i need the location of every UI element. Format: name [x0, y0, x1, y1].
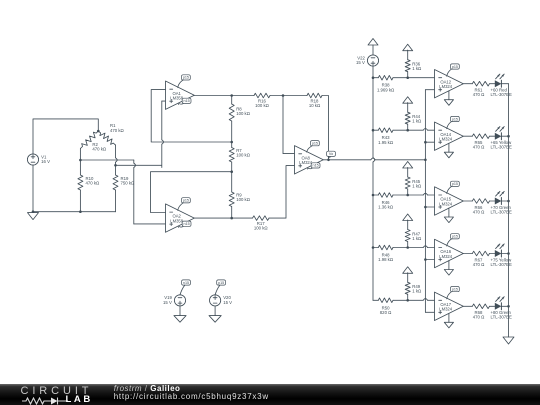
svg-text:100 kΩ: 100 kΩ	[236, 111, 251, 116]
flag n15 (OA8 V-)	[308, 163, 321, 169]
svg-text:470 Ω: 470 Ω	[473, 92, 485, 97]
wire: Vo rail (comparator + inputs)	[424, 90, 426, 313]
svg-text:470 kΩ: 470 kΩ	[86, 181, 101, 186]
label R45	[412, 179, 422, 189]
wire: plus input stage 5	[425, 311, 434, 313]
wire: OA1 output	[194, 95, 254, 97]
svg-text:470 kΩ: 470 kΩ	[110, 128, 125, 133]
label R8	[236, 107, 251, 117]
svg-text:LM324: LM324	[439, 254, 452, 259]
flag p15 (OA1 V+)	[178, 75, 191, 88]
resistor R50 820 &#937;	[373, 298, 408, 303]
svg-text:1 kΩ: 1 kΩ	[412, 66, 422, 71]
svg-text:LM324: LM324	[439, 84, 452, 89]
svg-text:15 V: 15 V	[223, 300, 232, 305]
label R18	[309, 99, 321, 109]
label R36	[412, 62, 422, 72]
wire: R16/R18 tap to OA8 minus	[283, 96, 295, 154]
wire: V19 to ground	[179, 306, 181, 316]
svg-text:LM324: LM324	[439, 137, 452, 142]
node: rail tap stage 4	[372, 246, 375, 249]
wire: ground rail	[33, 211, 116, 213]
op-amp OA16 LM324	[435, 239, 464, 267]
resistor R67 470 &#937;	[472, 251, 495, 256]
wire: R2 bottom lead	[79, 149, 81, 161]
op-amp OA17 LM324	[435, 292, 464, 320]
resistor R1 470 k&#937; (diagonal)	[98, 131, 115, 145]
resistor R9 100 k&#937;	[229, 172, 234, 218]
ground (OA15)	[444, 208, 453, 223]
resistor R8 100 k&#937;	[229, 96, 234, 143]
node: rail tap stage 3	[372, 194, 375, 197]
wire: right LED rail	[508, 84, 510, 337]
resistor R44 1 k&#937;	[405, 103, 410, 131]
node A (R2/R10/OA2+ node)	[79, 159, 82, 162]
label LED +75 Yellow	[491, 257, 513, 267]
node: LED rail junction	[507, 135, 510, 138]
wire: LED to right rail	[501, 200, 508, 202]
node: Vo rail tap stage 3	[424, 206, 427, 209]
ground (LED rail)	[503, 337, 514, 344]
op-amp OA2 LM358	[166, 204, 195, 232]
LED D4 +75 Yellow	[495, 244, 504, 257]
resistor R19 750 k&#937;	[113, 175, 118, 212]
label R61	[473, 88, 485, 98]
wire: OA1 minus feedback to R8/R7 node	[151, 90, 232, 142]
resistor R2 470 k&#937; (diagonal)	[80, 131, 98, 149]
node: bridge apex	[97, 130, 100, 133]
op-amp OA15 LM324	[435, 187, 464, 215]
svg-text:820 Ω: 820 Ω	[380, 310, 392, 315]
svg-text:Vo: Vo	[329, 152, 333, 156]
flag supply arrow above V22	[368, 39, 378, 55]
node: reference node stage 2	[406, 129, 409, 132]
node: R9 bottom / OA2 out	[230, 217, 233, 220]
label R7	[236, 148, 251, 158]
CircuitLab logo	[21, 385, 93, 397]
svg-text:1.36 kΩ: 1.36 kΩ	[378, 205, 394, 210]
resistor R36 1 k&#937;	[405, 50, 410, 77]
op-amp OA14 LM324	[435, 122, 464, 150]
node: Vo rail tap stage 2	[424, 141, 427, 144]
node: reference node stage 4	[406, 246, 409, 249]
op-amp OA1 LM358	[166, 81, 195, 109]
wire: plus input stage 4	[425, 259, 434, 261]
svg-text:LM324: LM324	[439, 307, 452, 312]
label R46	[378, 200, 394, 210]
resistor R49 1 k&#937;	[405, 273, 410, 301]
node: rail tap stage 2	[372, 129, 375, 132]
node: reference node stage 1	[406, 76, 409, 79]
svg-text:1 kΩ: 1 kΩ	[412, 289, 422, 294]
label R2	[92, 142, 107, 152]
svg-text:16 V: 16 V	[41, 159, 50, 164]
label R67	[473, 257, 485, 267]
voltage source V1 16 V	[27, 154, 50, 165]
resistor R47 1 k&#937;	[405, 220, 410, 248]
ground (OA12)	[444, 91, 453, 106]
op-amp OA8 LM324	[295, 146, 324, 174]
node: Vo entry on rail	[424, 159, 427, 162]
ground (V20)	[209, 316, 221, 323]
wire: R18 feedback down to OA8 output	[322, 96, 329, 160]
resistor R61 470 &#937;	[472, 81, 495, 86]
wire: R16 to R18	[270, 95, 307, 97]
wire: R1 bottom lead with jump over node-A wire	[116, 145, 118, 175]
label LED +80 Green	[491, 310, 513, 320]
resistor R10 470 k&#937;	[78, 160, 83, 212]
svg-text:100 kΩ: 100 kΩ	[255, 103, 270, 108]
node: V22/R38/rail junction	[372, 76, 375, 79]
wire: output stage 3	[463, 200, 472, 202]
svg-text:n15: n15	[313, 164, 319, 168]
wire: R17 to OA8 plus	[269, 166, 295, 219]
wire: node A to OA2 plus input (with jump over node-B wire)	[80, 160, 165, 224]
svg-text:n15: n15	[183, 281, 189, 285]
node: R8/R7 junction	[230, 141, 233, 144]
wire: V1 bottom to ground rail	[32, 165, 34, 212]
resistor R7 100 k&#937;	[229, 142, 234, 172]
flag supply arrow stage 2	[403, 97, 413, 104]
label R43	[378, 135, 394, 145]
svg-text:p15: p15	[218, 281, 224, 285]
node: reference node stage 3	[406, 194, 409, 197]
node: reference node stage 5	[406, 299, 409, 302]
wire: Vo to comparator rail (jump over ladder rail)	[323, 158, 425, 160]
flag supply arrow stage 1	[403, 44, 413, 51]
label R10	[86, 176, 101, 186]
wire: OA2 minus feedback to R7/R9 node	[151, 172, 232, 213]
svg-text:p15: p15	[452, 287, 458, 291]
wire: minus input stage 2 (jump over Vo rail)	[408, 129, 435, 131]
label R38	[377, 83, 395, 93]
node: R16/R18 junction	[282, 94, 285, 97]
op-amp OA12 LM324	[435, 70, 464, 98]
label R66	[473, 205, 485, 215]
svg-text:100 kΩ: 100 kΩ	[236, 152, 251, 157]
wire: LED to right rail	[501, 253, 508, 255]
voltage source V22 15 V	[356, 55, 379, 66]
wire: plus input stage 3	[425, 206, 434, 208]
ground (V19)	[174, 316, 186, 323]
wire: minus input stage 1	[408, 77, 435, 79]
svg-text:470 Ω: 470 Ω	[473, 315, 485, 320]
flag n15 (OA2 V-)	[179, 221, 192, 227]
label R50	[380, 305, 392, 315]
node: LED rail junction	[507, 305, 510, 308]
resistor R43 1.95 k&#937;	[373, 128, 408, 133]
label R47	[412, 231, 422, 241]
svg-text:n15: n15	[184, 222, 190, 226]
node: LED rail junction	[507, 200, 510, 203]
wire: V20 to ground	[214, 306, 216, 316]
LED D5 +80 Green	[495, 297, 504, 310]
label R16	[255, 99, 270, 109]
LED D3 +70 Green	[495, 191, 504, 204]
label LED +65 Yellow	[491, 140, 513, 150]
resistor R66 470 &#937;	[472, 199, 495, 204]
ground (OA17)	[444, 313, 453, 328]
flag n15 (V19)	[180, 280, 190, 295]
svg-text:750 kΩ: 750 kΩ	[121, 181, 136, 186]
wire: LED to right rail	[501, 135, 508, 137]
resistor R65 470 &#937;	[472, 134, 495, 139]
svg-text:10 kΩ: 10 kΩ	[309, 103, 321, 108]
label R17	[254, 221, 269, 231]
wire: output stage 4	[463, 253, 472, 255]
svg-text:15 V: 15 V	[163, 300, 172, 305]
resistor R18 10 k&#937;	[307, 93, 322, 98]
flag n15 (OA1 V-)	[179, 98, 192, 104]
label R19	[121, 176, 136, 186]
svg-text:LM324: LM324	[439, 201, 452, 206]
resistor R38 1.969 k&#937;	[373, 75, 408, 80]
LED D1 +60 Red	[495, 74, 504, 87]
flag p15 (OA16 V+)	[447, 234, 460, 246]
flag supply arrow stage 5	[403, 267, 413, 274]
wire: LED to right rail	[501, 83, 508, 85]
flag p15 (V20)	[215, 280, 225, 295]
wire: LED to right rail	[501, 305, 508, 307]
svg-text:470 Ω: 470 Ω	[473, 262, 485, 267]
node: OA8 output / feedback	[327, 159, 330, 162]
resistor R17 100 k&#937;	[253, 216, 270, 221]
ground (OA16)	[444, 261, 453, 276]
svg-text:p15: p15	[183, 76, 189, 80]
svg-text:1.95 kΩ: 1.95 kΩ	[378, 140, 394, 145]
svg-text:p15: p15	[312, 142, 318, 146]
svg-text:1 kΩ: 1 kΩ	[412, 236, 422, 241]
wire: OA2 output to R17	[194, 217, 253, 219]
ground (OA14)	[444, 143, 453, 158]
node: R10-ground rail	[79, 210, 82, 213]
label LED +70 Green	[491, 205, 513, 215]
svg-text:LM324: LM324	[299, 160, 312, 165]
wire: output stage 1	[463, 83, 472, 85]
svg-text:1 kΩ: 1 kΩ	[412, 183, 422, 188]
node B (R1/R19/OA1+ node)	[114, 164, 117, 167]
node: Vo rail tap stage 4	[424, 258, 427, 261]
voltage source V20 15 V	[210, 295, 233, 306]
wire: minus input stage 3 (jump over Vo rail)	[408, 193, 435, 195]
svg-text:p15: p15	[452, 182, 458, 186]
svg-text:470 Ω: 470 Ω	[473, 145, 485, 150]
label R9	[236, 192, 251, 202]
label R49	[412, 284, 422, 294]
svg-text:100 kΩ: 100 kΩ	[236, 197, 251, 202]
LED D2 +65 Yellow	[495, 127, 504, 140]
flag p15 (OA8 V+)	[307, 141, 320, 153]
flag supply arrow stage 3	[403, 162, 413, 169]
flag supply arrow stage 4	[403, 214, 413, 221]
svg-text:LM358: LM358	[170, 219, 183, 224]
svg-text:470 kΩ: 470 kΩ	[92, 146, 107, 151]
label LED +60 Red	[491, 88, 513, 98]
label R65	[473, 140, 485, 150]
flag p15 (OA2 V+)	[178, 198, 191, 211]
svg-text:1 kΩ: 1 kΩ	[412, 119, 422, 124]
flag p15 (OA17 V+)	[447, 287, 460, 299]
resistor R45 1 k&#937;	[405, 168, 410, 196]
wire: output stage 2	[463, 135, 472, 137]
svg-text:100 kΩ: 100 kΩ	[254, 226, 269, 231]
wire: V1 top to bridge apex	[33, 119, 98, 154]
wire: output stage 5	[463, 305, 472, 307]
node: V1-ground junction	[32, 210, 35, 213]
wire: plus input stage 1	[425, 89, 434, 91]
svg-text:p15: p15	[452, 117, 458, 121]
svg-text:LM358: LM358	[170, 96, 183, 101]
resistor R68 470 &#937;	[472, 304, 495, 309]
label R44	[412, 114, 422, 124]
node: R7/R9 junction	[230, 170, 233, 173]
wire: minus input stage 4 (jump over Vo rail)	[408, 246, 435, 248]
flag Vo (output node)	[327, 151, 336, 158]
svg-text:n15: n15	[184, 99, 190, 103]
wire: minus input stage 5 (jump over Vo rail)	[408, 299, 435, 301]
flag p15 (OA12 V+)	[447, 64, 460, 76]
wire: plus input stage 2	[425, 141, 434, 143]
ground (main)	[28, 213, 39, 220]
svg-text:1.969 kΩ: 1.969 kΩ	[377, 87, 395, 92]
svg-text:p15: p15	[183, 199, 189, 203]
svg-text:15 V: 15 V	[356, 60, 365, 65]
node: OA1 out / R8 top	[230, 94, 233, 97]
wire: node B to OA1 plus input	[116, 101, 166, 167]
svg-text:p15: p15	[452, 235, 458, 239]
node: LED rail junction	[507, 252, 510, 255]
label R68	[473, 310, 485, 320]
flag p15 (OA15 V+)	[447, 181, 460, 193]
voltage source V19 15 V	[163, 295, 186, 306]
resistor R16 100 k&#937;	[254, 93, 270, 98]
svg-text:470 Ω: 470 Ω	[473, 209, 485, 214]
resistor R46 1.36 k&#937;	[373, 193, 408, 198]
svg-text:1.98 kΩ: 1.98 kΩ	[378, 257, 394, 262]
flag p15 (OA14 V+)	[447, 116, 460, 128]
label R48	[378, 253, 394, 263]
resistor R48 1.98 k&#937;	[373, 245, 408, 250]
wire: ladder left rail (jump over Vo wire)	[373, 66, 375, 300]
label R1	[110, 123, 125, 133]
svg-text:p15: p15	[452, 65, 458, 69]
